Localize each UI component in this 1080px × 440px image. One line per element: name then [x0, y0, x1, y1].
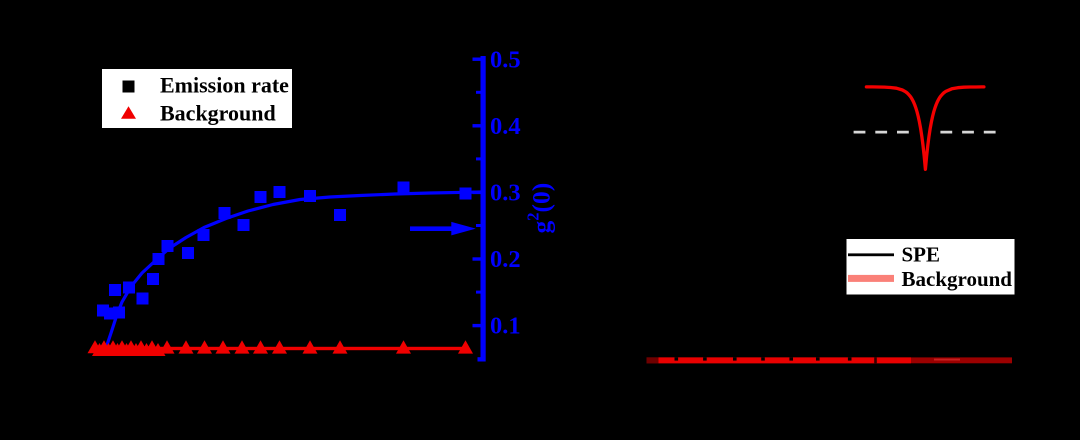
axis tick labels: [490, 46, 521, 339]
svg-text:0.4: 0.4: [490, 113, 521, 140]
svg-text:Emission rate: Emission rate: [160, 73, 289, 98]
legend marker: Background line (salmon): [848, 275, 894, 282]
background line (red): [92, 347, 468, 350]
fit curve (blue): [107, 192, 481, 345]
emission rate data squares (blue): [97, 182, 472, 320]
bottom trace bright segment: [659, 357, 912, 363]
svg-text:Background: Background: [160, 101, 276, 126]
svg-text:0.3: 0.3: [490, 180, 521, 207]
dark gap in bright segment: [874, 357, 877, 363]
background data triangles (red): [88, 340, 474, 356]
brighter streak in dark part: [934, 359, 960, 361]
svg-text:Background: Background: [902, 267, 1013, 291]
inset red dip curve: [866, 87, 984, 169]
legend marker: background triangle: [121, 106, 136, 119]
bottom trace dark left start: [647, 357, 659, 363]
left legend box: [102, 69, 292, 128]
svg-text:SPE: SPE: [902, 242, 941, 266]
right legend box: [847, 239, 1015, 295]
tick notches over trace: [675, 357, 679, 360]
inset dashed white line: [854, 131, 909, 134]
right blue axis spine: [481, 56, 486, 362]
minor ticks: [476, 91, 481, 294]
svg-text:0.1: 0.1: [490, 313, 521, 340]
arrow (blue): [410, 226, 453, 231]
svg-text:0.2: 0.2: [490, 246, 521, 273]
bottom noisy trace: dark base: [647, 357, 1013, 363]
svg-text:0.5: 0.5: [490, 46, 521, 73]
legend marker: emission rate square: [123, 81, 135, 93]
svg-text:g2(0): g2(0): [524, 183, 556, 234]
major ticks: [473, 58, 482, 362]
legend marker: SPE line (black): [848, 253, 894, 256]
